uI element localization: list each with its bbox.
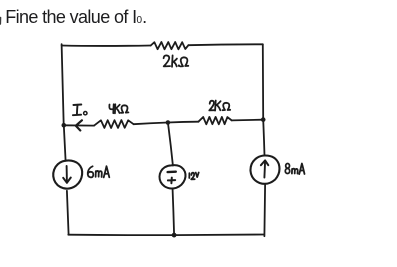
resistor R2 4k ohm zigzag xyxy=(94,120,134,128)
title: question text xyxy=(5,8,146,30)
label: 4K ohm xyxy=(109,104,128,113)
wire: middle right of junction xyxy=(168,121,199,124)
wire: middle left segment xyxy=(64,124,94,126)
label: 6mA xyxy=(88,166,110,177)
current source U1 6mA circle xyxy=(53,160,82,188)
label: 8mA xyxy=(285,164,304,175)
wire: left vertical to 6mA source xyxy=(64,125,66,161)
label: I0 current label xyxy=(73,105,87,116)
node: right middle junction xyxy=(261,117,266,122)
node: middle top junction xyxy=(166,120,171,125)
arrow: 8mA up arrow inside xyxy=(261,160,268,177)
current source U3 8mA circle xyxy=(250,155,279,183)
arrow: 6mA down arrow inside xyxy=(63,166,71,183)
symbol: minus sign inside 12V xyxy=(168,170,176,173)
wire: top left segment xyxy=(62,45,151,47)
wire: right vertical lower xyxy=(263,185,266,236)
label: 12V xyxy=(189,173,198,180)
voltage source V1 12V circle xyxy=(159,165,185,188)
wire: middle branch lower xyxy=(173,190,175,235)
resistor R1 2k ohm (top) zigzag xyxy=(151,42,189,49)
cut-off mark left edge xyxy=(0,18,2,25)
wire: top right segment xyxy=(188,43,262,46)
wire: right vertical to 8mA source xyxy=(263,120,264,156)
label: 2k ohm (top resistor) xyxy=(164,55,189,66)
node: bottom middle junction xyxy=(172,233,177,238)
symbol: plus sign inside 12V xyxy=(168,178,175,184)
wire: left vertical upper xyxy=(62,44,64,125)
node: left middle junction xyxy=(62,123,67,128)
wire: right vertical upper xyxy=(262,44,264,119)
wire: bottom rail xyxy=(68,234,264,237)
arrow: I0 direction arrowhead xyxy=(76,120,82,130)
wire: left vertical lower xyxy=(67,191,69,235)
wire: middle segment between resistors xyxy=(134,123,168,125)
wire: middle right segment to right rail xyxy=(232,119,263,122)
label: 2K ohm xyxy=(209,101,230,111)
wire: middle branch upper xyxy=(168,123,173,166)
resistor R3 2K ohm zigzag xyxy=(198,117,231,124)
